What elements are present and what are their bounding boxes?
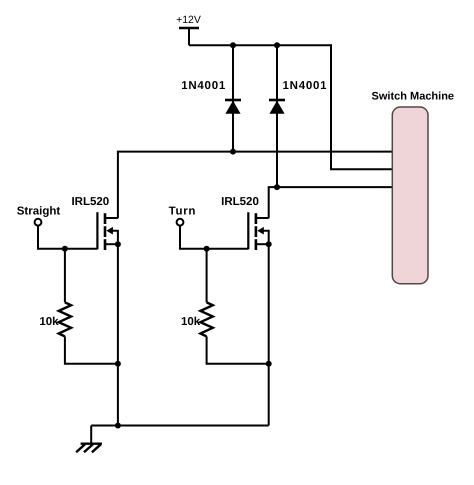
transistor Q1 IRL520 (Straight MOSFET): [97, 212, 121, 250]
node junction dot gate1-R1: [62, 246, 68, 252]
wire bottom rail: [91, 425, 269, 427]
node junction dot R2-source2: [266, 361, 272, 367]
+12V power symbol: [176, 14, 201, 28]
resistor R1 10k: [59, 249, 118, 364]
wire Q1 source down: [117, 244, 119, 425]
node junction dot rail-D1: [230, 42, 236, 48]
node junction dot source1-bottom rail: [115, 423, 121, 429]
wire Straight terminal to Q1 gate: [38, 226, 97, 249]
terminal Turn input: [177, 219, 184, 226]
svg-text:10k: 10k: [181, 316, 201, 328]
node junction dot D1-pin1 wire: [230, 149, 236, 155]
resistor R2 10k: [200, 249, 268, 364]
terminal Straight input: [35, 219, 42, 226]
svg-text:1N4001: 1N4001: [283, 80, 328, 92]
wire top rail: [189, 44, 331, 46]
ground: [76, 426, 102, 453]
svg-text:+12V: +12V: [176, 14, 201, 26]
node junction dot rail-D2: [274, 42, 280, 48]
svg-text:Switch Machine: Switch Machine: [372, 91, 455, 103]
wire Q2 drain up and right to switch machine pin 3: [269, 187, 394, 218]
node junction dot D2-pin3 wire: [274, 184, 280, 190]
svg-text:Straight: Straight: [17, 206, 61, 218]
svg-text:IRL520: IRL520: [221, 196, 259, 208]
node junction dot gate2-R2: [204, 246, 210, 252]
diode D1 1N4001: [225, 45, 241, 151]
transistor Q2 IRL520 (Turn MOSFET): [248, 212, 271, 250]
svg-text:1N4001: 1N4001: [181, 80, 226, 92]
diode D2 1N4001: [269, 45, 285, 187]
svg-text:10k: 10k: [39, 316, 59, 328]
switch machine block: [392, 107, 428, 284]
wire rail corner down to switch machine middle pin: [331, 44, 394, 169]
node junction dot R1-source1: [115, 361, 121, 367]
wire +12V stub down: [188, 28, 190, 45]
svg-text:IRL520: IRL520: [71, 196, 109, 208]
wire Q2 source down: [268, 244, 270, 425]
wire Turn terminal to Q2 gate: [180, 226, 248, 249]
svg-text:Turn: Turn: [169, 206, 197, 218]
wire Q1 drain up and right to switch machine pin 1: [118, 152, 394, 219]
